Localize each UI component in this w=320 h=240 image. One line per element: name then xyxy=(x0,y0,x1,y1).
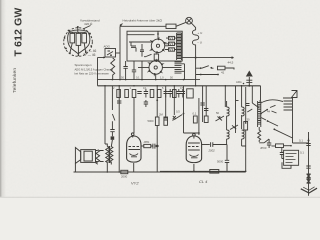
resistor mid r8 xyxy=(164,117,168,125)
second row cap x147 xyxy=(144,100,148,107)
rail x112 xyxy=(112,86,115,122)
divider feed stem xyxy=(77,27,79,32)
speaker cone xyxy=(75,148,80,164)
dot bottom bus x105 xyxy=(107,171,109,173)
right bus corner down xyxy=(260,86,262,89)
coil lower b xyxy=(175,70,182,74)
rail x206 xyxy=(205,86,207,116)
resistor switch branch xyxy=(218,66,226,70)
bus junction dots xyxy=(104,85,106,87)
tube V2 nub stem xyxy=(193,136,195,138)
dot x292 bottom xyxy=(290,145,292,147)
rail x245 low xyxy=(245,131,247,172)
wire Ra top xyxy=(72,32,84,33)
wire lamp to rail xyxy=(192,23,196,30)
switch tap a xyxy=(261,110,267,114)
junction y68 xyxy=(200,67,202,69)
speaker wires xyxy=(75,151,111,173)
transformer top wires xyxy=(105,140,112,147)
rail x260 top xyxy=(259,89,261,101)
wire resistor to cap xyxy=(284,145,291,147)
field coil zigzag xyxy=(96,150,100,165)
resistor box s1 a xyxy=(169,36,175,39)
junction y74.5 a xyxy=(200,74,202,76)
electrolytic blob x112 xyxy=(111,136,115,139)
vertical x120 xyxy=(119,26,121,61)
rail x225 xyxy=(224,86,226,107)
rail x202.5 xyxy=(202,86,204,122)
dot bank xyxy=(260,113,262,115)
rail x245.5 xyxy=(245,87,247,123)
pin dot left upper xyxy=(64,37,66,39)
contact pair mid xyxy=(270,105,277,113)
component row resistor r4 xyxy=(150,90,154,98)
IF coil 1a xyxy=(227,101,230,130)
pin dot bottom right xyxy=(85,51,87,53)
tuner coil winding hatch xyxy=(177,33,182,59)
pin dot top xyxy=(77,26,79,28)
rail x183.5 xyxy=(183,86,185,133)
left rail x97.5 xyxy=(97,58,99,86)
speaker body box xyxy=(81,150,96,163)
tuner coil side rails xyxy=(177,33,182,60)
wire top to x308 xyxy=(293,138,309,143)
rail x252 xyxy=(251,86,253,103)
fuse bowtie lower xyxy=(307,179,311,183)
tube V2 grid dashes xyxy=(188,143,200,150)
rail x235 xyxy=(235,86,237,133)
netz resistor box xyxy=(276,144,284,148)
tube socket 1 xyxy=(151,39,164,52)
bottom right cap x269 xyxy=(267,139,271,148)
dot diag2 xyxy=(273,128,275,130)
socket1 pins xyxy=(151,41,153,43)
tube V1 bottom stem xyxy=(133,163,135,172)
inbox caps xyxy=(131,42,144,57)
pin dot right xyxy=(90,45,92,47)
wire y57.6 to arrow xyxy=(182,57,233,59)
junction y74.5 b xyxy=(217,74,219,76)
switch tap b xyxy=(261,118,266,121)
wire x235 top tick xyxy=(236,100,239,102)
pointer line to circle xyxy=(83,26,91,30)
tube V2 cathode xyxy=(190,155,199,158)
top annotation arrow xyxy=(120,24,123,26)
pin dot bottom left xyxy=(69,52,71,54)
junction socket1 top xyxy=(157,33,159,35)
component row resistor r1 xyxy=(117,90,121,98)
resistor Ra xyxy=(70,33,75,43)
tube V1 nub stem xyxy=(132,136,134,138)
tube V2 right wire xyxy=(202,144,210,146)
pin dot left lower xyxy=(65,48,67,50)
trimmer cap arrow 1 xyxy=(216,116,225,121)
antenna stem xyxy=(248,77,250,86)
resistor R heater xyxy=(166,24,176,28)
component row cap c6 xyxy=(181,89,185,98)
dot x183 mid xyxy=(183,113,185,115)
socket2 center xyxy=(154,66,157,69)
tube V1 top nub xyxy=(131,133,134,136)
resistor zigzag below ADG xyxy=(111,58,115,80)
sub resistor below socket1 xyxy=(154,54,158,60)
component row resistor r3 xyxy=(132,90,136,98)
vertical x120 to bus xyxy=(119,61,121,80)
cap below box B xyxy=(132,61,136,80)
fuse bowtie upper xyxy=(307,174,311,178)
pin dot top left xyxy=(68,30,70,32)
wire box bottom xyxy=(282,162,291,168)
inbox switch xyxy=(144,54,152,56)
ADG meter box xyxy=(105,49,116,58)
dot bottom bus x119 xyxy=(118,171,120,173)
component row cap c3 xyxy=(164,89,168,98)
tube V1 grid dashes xyxy=(129,147,141,150)
junction sw right xyxy=(210,67,212,69)
coil lower taps xyxy=(182,64,185,80)
resistor mid r7 xyxy=(155,117,159,126)
socket1 center xyxy=(156,44,159,47)
coupling cap h xyxy=(211,142,227,147)
component row cap c2 xyxy=(144,89,148,98)
resistor Rb xyxy=(76,33,81,45)
cap x112 xyxy=(110,122,114,136)
component row cap c4 xyxy=(168,89,172,98)
switch mid xyxy=(172,115,182,121)
cap x308 a xyxy=(306,144,310,146)
socket1 radial ticks xyxy=(150,37,167,54)
component row cap c5 xyxy=(177,89,181,98)
socket1 stem top xyxy=(157,31,159,39)
switch diag 2 xyxy=(274,129,292,138)
heater antenna wire y26 xyxy=(120,25,166,27)
rail x174 xyxy=(173,86,175,115)
resistor x245 xyxy=(244,122,248,131)
small comp x247 top xyxy=(246,104,250,106)
resistor V1 right xyxy=(144,144,151,147)
dot x308 top xyxy=(308,140,310,142)
pin dot bottom xyxy=(78,54,80,56)
dot x245 xyxy=(245,122,247,124)
rail x105 xyxy=(104,86,106,144)
second row cap below r1 xyxy=(117,101,121,103)
main bus y85.8 xyxy=(98,85,261,87)
component row resistor r6 xyxy=(173,90,177,98)
wire resistor right xyxy=(225,68,234,70)
tube V1 anode wire xyxy=(141,145,144,147)
tube V2 top nub xyxy=(193,134,196,137)
ADG box contacts xyxy=(107,51,113,55)
speaker magnet inner xyxy=(84,151,92,161)
component row resistor r2 xyxy=(125,90,129,98)
transformer core xyxy=(108,146,111,163)
switch slant right b xyxy=(247,109,252,112)
trimmer cap arrow 2 xyxy=(230,125,238,130)
antenna triangle xyxy=(246,71,253,77)
dot tube V2 stem xyxy=(193,170,195,172)
rail x198.9 xyxy=(198,98,200,133)
output transformer primary xyxy=(106,147,109,163)
tube V1 cathode xyxy=(130,154,139,157)
divider top bus bar xyxy=(69,31,87,33)
tuner unit box xyxy=(127,31,182,61)
coil lower a xyxy=(175,62,182,67)
curved wire to bank xyxy=(261,100,283,103)
switch bank stem xyxy=(283,98,293,112)
wire coil1b bottom xyxy=(227,142,246,146)
wire chassis to ADG box xyxy=(98,57,106,59)
winding lower zigzag xyxy=(258,127,261,142)
wire to netz resistor xyxy=(272,145,276,147)
junction y57.6 xyxy=(195,57,197,59)
resistor x206 xyxy=(204,116,208,123)
wire resistor to lamp xyxy=(176,22,186,26)
tube V2 envelope xyxy=(186,136,201,163)
selector text lines xyxy=(286,154,297,163)
tube socket 2 xyxy=(149,61,162,74)
dot x245 bus xyxy=(245,171,247,173)
output transformer secondary xyxy=(110,147,113,163)
switch bank bars xyxy=(284,101,293,110)
mains dropper winding xyxy=(258,101,261,127)
bottom bus right seg xyxy=(160,170,246,172)
voltage selector box xyxy=(284,150,299,165)
switch diag 1 xyxy=(268,121,279,126)
dot x157 top xyxy=(156,99,158,101)
heater divider dashed circle xyxy=(64,28,93,57)
bottom scan edge xyxy=(0,197,320,198)
mains arrow stem xyxy=(308,188,310,196)
socket2 radial ticks xyxy=(147,59,164,76)
component row box wide xyxy=(187,89,194,98)
switch slant right a xyxy=(252,103,258,108)
wire Rc down xyxy=(84,43,85,52)
antenna dot xyxy=(248,85,250,87)
resistor box s1 c xyxy=(169,48,175,51)
component row resistor r5 xyxy=(157,90,161,98)
socket1 wire right xyxy=(165,45,169,47)
second row cap x166 xyxy=(164,118,168,120)
dot x198 mid xyxy=(198,132,200,134)
cap below box A xyxy=(123,61,127,80)
resistor V2 bottom xyxy=(210,170,219,174)
dot x155 bus xyxy=(155,79,157,81)
upper bus y79.6 xyxy=(98,79,201,81)
link winding to cap xyxy=(259,139,269,143)
dot antenna adg xyxy=(243,83,245,85)
pin dot top right xyxy=(89,33,91,35)
wire tube2 top left xyxy=(184,133,199,135)
rail x165.7 xyxy=(165,86,167,117)
mains arrow inner xyxy=(303,187,314,190)
socket2 wire right xyxy=(162,67,174,69)
junction tube wire dot xyxy=(226,144,228,146)
cap top rail x206 xyxy=(204,109,208,111)
component row cap c1 xyxy=(137,92,141,94)
resistor V1 bottom xyxy=(121,170,128,173)
dial lamp xyxy=(186,17,193,24)
cap top rail x202 xyxy=(200,103,204,105)
dot x120 bus xyxy=(119,79,121,81)
tube V1 envelope xyxy=(127,136,141,162)
X mark mid switch xyxy=(173,116,176,119)
rail x157 xyxy=(156,86,158,172)
wire Ra down xyxy=(70,43,72,53)
wire bank down xyxy=(292,112,294,143)
box inner top line xyxy=(127,31,158,35)
heater cord resistance wavy xyxy=(192,30,198,45)
wire y74.5 xyxy=(196,74,218,76)
resistor Rc xyxy=(82,33,87,43)
socket2 wire left xyxy=(138,67,149,69)
tube V2 bottom stem xyxy=(193,164,195,171)
dot cap V1 xyxy=(156,145,159,148)
cap V1 right xyxy=(151,144,157,149)
IF coil 2b xyxy=(242,130,245,142)
resistor mid r9 xyxy=(193,116,197,123)
rail below heater xyxy=(195,45,197,85)
bottom bus xyxy=(74,171,246,173)
socket1 wire left xyxy=(129,41,151,43)
vertical x142 to bus xyxy=(141,61,143,80)
junction ADG right dot xyxy=(110,54,112,56)
right rail x308 xyxy=(308,132,310,188)
socket2 pins xyxy=(149,63,151,65)
rail x134 to tube V1 xyxy=(133,98,134,134)
small sq x292 xyxy=(292,91,298,98)
resistor box s1 b xyxy=(169,42,175,45)
cap x308 b xyxy=(306,166,310,168)
socket2 bottom stem xyxy=(155,74,157,79)
dot diag1 xyxy=(267,120,269,122)
wire ADG to vertical xyxy=(116,52,121,54)
cap V2 right xyxy=(225,145,229,172)
switch y68 xyxy=(196,66,214,69)
IF coil 1b xyxy=(227,130,230,142)
antenna cap plates xyxy=(246,80,252,82)
rail x241.5 xyxy=(241,86,243,100)
mains arrow xyxy=(301,188,317,193)
wire Rb down xyxy=(77,45,79,54)
selector cap left xyxy=(280,148,284,159)
wires boxes to coil xyxy=(165,38,177,49)
junction ADG left dot xyxy=(103,57,105,59)
IF coil 2a xyxy=(242,100,245,129)
rail x119 xyxy=(118,86,120,172)
divider enclosure outline xyxy=(68,30,90,54)
